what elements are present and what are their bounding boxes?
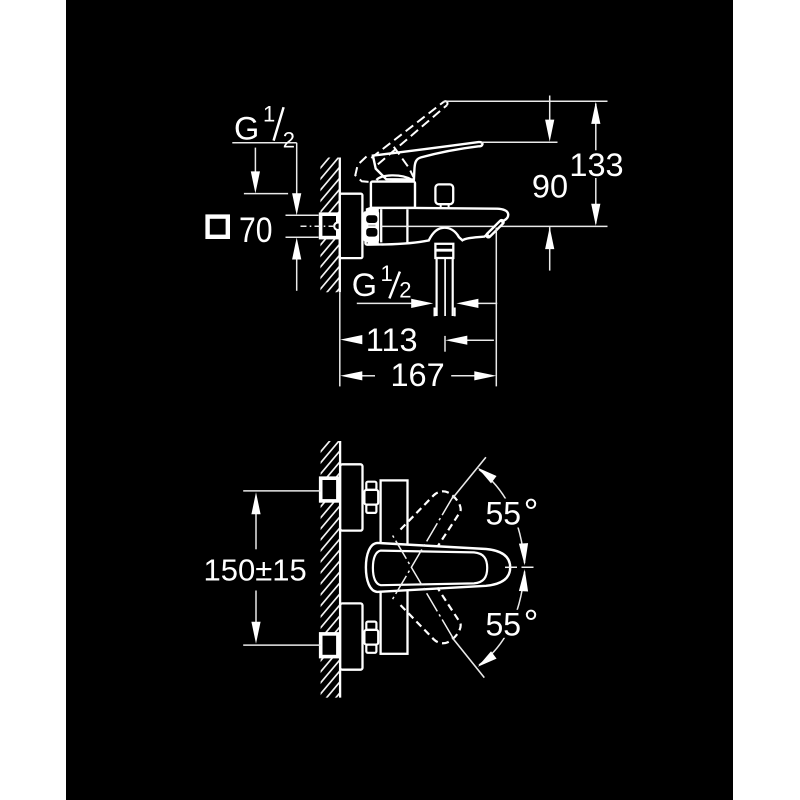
arrow G1/2 hose left pointing right xyxy=(411,299,433,308)
arrow 90 top pointing down xyxy=(545,120,554,142)
svg-text:113: 113 xyxy=(366,322,418,358)
axis centerline lower 55 xyxy=(391,533,453,638)
lever cap dome xyxy=(376,175,411,180)
arc dimension lower 55 xyxy=(479,571,525,665)
wall face extension line down to 167 dimension xyxy=(339,292,341,386)
svg-text:G: G xyxy=(234,110,259,146)
hose centre tick xyxy=(444,336,446,352)
G 1/2 hose right arrow shaft xyxy=(476,302,497,304)
dimension line 133 xyxy=(595,104,597,224)
lower union nut (plan) xyxy=(364,622,378,653)
dashed lever lobe rotated down 55 xyxy=(401,588,461,644)
arrow 133 bottom pointing down xyxy=(591,204,600,226)
svg-text:1: 1 xyxy=(381,261,393,286)
hand shower nut below body xyxy=(435,244,453,258)
dashed lever lobe rotated up 55 xyxy=(401,491,461,547)
label G 1/2 top xyxy=(234,102,295,153)
G 1/2 lower label underline xyxy=(357,302,413,304)
arrowheads view 1 xyxy=(251,102,601,381)
diverter knob on spout top xyxy=(435,184,453,208)
113 right arrow shaft xyxy=(465,339,494,341)
lever handle (solid, horizontal position) xyxy=(373,142,483,180)
arrow arc lower outer xyxy=(478,651,497,667)
G 1/2 top label underline xyxy=(232,142,296,144)
square 70 upper line xyxy=(286,214,319,216)
leader down from G 1/2 underline xyxy=(296,143,298,194)
svg-text:55°: 55° xyxy=(486,492,539,533)
arrow 113 at hose centre pointing right... xyxy=(445,336,467,345)
axis centerline upper 55 xyxy=(391,497,453,602)
body contour line rear xyxy=(380,209,382,242)
label 55 lower xyxy=(484,603,540,644)
wall face line (view 1) xyxy=(339,158,341,293)
150 dimension extension line upper xyxy=(243,490,321,492)
arrow 150 bottom pointing down xyxy=(251,622,260,644)
aerator tip extension line down xyxy=(495,228,497,387)
svg-text:1: 1 xyxy=(263,102,275,127)
label G 1/2 lower xyxy=(352,261,412,303)
texts view 1 xyxy=(208,102,624,393)
reference line escutcheon top level xyxy=(244,193,288,195)
arrow 70 top pointing down xyxy=(292,193,301,215)
extension line at lever top (90 top) xyxy=(482,141,558,143)
svg-text:133: 133 xyxy=(569,147,623,183)
svg-text:90: 90 xyxy=(532,168,568,204)
lever handle raised position (dashed) xyxy=(355,101,447,182)
union nut (view 1) xyxy=(364,208,380,244)
body seam and 90/133 dimension base line xyxy=(382,225,608,227)
faucet body and spout outline xyxy=(365,208,508,245)
arrow arc upper inner pointing down xyxy=(519,543,528,565)
arc dimension upper 55 xyxy=(479,470,525,564)
arrow arc lower inner pointing up xyxy=(519,569,528,591)
wall hatching (view 2) xyxy=(302,424,344,738)
square symbol for 70 xyxy=(208,217,228,237)
svg-text:G: G xyxy=(352,267,377,303)
upper escutcheon (plan) xyxy=(340,464,362,530)
extension line upper 55 xyxy=(452,457,486,498)
label 55 upper xyxy=(484,492,540,533)
square 70 lower line xyxy=(286,236,319,238)
horizontal centerline at handle tip xyxy=(505,566,538,568)
lever handle paddle outer (plan) xyxy=(366,543,510,592)
arrow 70 bottom pointing up xyxy=(292,238,301,260)
body contour line front xyxy=(406,209,408,242)
svg-text:55°: 55° xyxy=(486,603,539,644)
svg-text:2: 2 xyxy=(399,278,411,303)
upper union nut (plan) xyxy=(364,482,378,513)
arrow 167 right xyxy=(474,371,496,380)
dash-dot centerline through supply connection xyxy=(301,225,337,227)
arrow 90 bottom pointing up xyxy=(545,227,554,249)
escutcheon (view 1) xyxy=(340,194,363,258)
svg-text:70: 70 xyxy=(239,211,273,250)
lower supply square on wall xyxy=(321,634,338,657)
svg-text:150±15: 150±15 xyxy=(204,553,307,588)
arrow 113 at wall pointing left xyxy=(340,335,362,344)
lower escutcheon (plan) xyxy=(340,603,362,669)
wall hatching (view 1) xyxy=(302,140,344,344)
hand shower hose xyxy=(435,259,455,317)
supply union square on wall (view 1) xyxy=(321,214,342,237)
upper supply square on wall xyxy=(321,478,338,501)
167 right arrow shaft xyxy=(451,375,476,377)
150 dimension vertical shafts xyxy=(255,514,257,622)
extension line lower 55 xyxy=(452,637,484,677)
wall face line (view 2) xyxy=(339,441,341,698)
cartridge block under lever xyxy=(371,182,415,208)
dimension line 90 xyxy=(549,96,551,271)
square 70 lower arrow shaft xyxy=(296,260,298,291)
faucet body (plan) xyxy=(381,480,408,653)
arrow arc upper outer xyxy=(478,468,497,484)
arrow 133 top pointing up xyxy=(591,102,600,124)
167 left arrow shaft xyxy=(360,375,375,377)
arrow 167 left xyxy=(340,371,362,380)
aerator on spout tip xyxy=(488,222,501,235)
lever handle paddle inner top face xyxy=(373,551,487,586)
arrow G1/2 top pointing down xyxy=(251,171,260,193)
arrow 150 top pointing up xyxy=(251,492,260,514)
G 1/2 pointer shaft xyxy=(254,148,256,172)
arrowheads view 2 xyxy=(251,468,528,667)
texts view 2 xyxy=(204,492,541,644)
svg-text:2: 2 xyxy=(283,127,295,152)
150 dimension extension line lower xyxy=(243,644,321,646)
svg-text:167: 167 xyxy=(390,357,444,393)
extension line at raised lever tip (133 top) xyxy=(444,100,608,102)
arrow G1/2 hose right pointing left xyxy=(456,299,478,308)
